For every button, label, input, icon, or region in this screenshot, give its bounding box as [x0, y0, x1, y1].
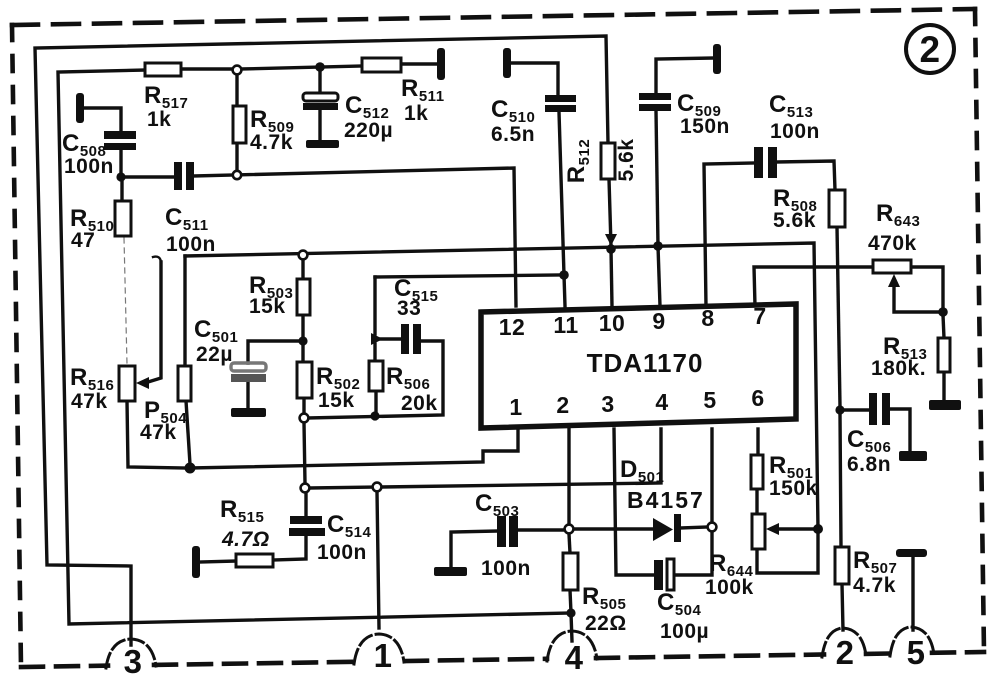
wire: pin 7 up and right to R643	[754, 267, 873, 306]
svg-text:6.5n: 6.5n	[491, 123, 535, 146]
wire: R506 top stub	[373, 344, 376, 361]
svg-text:D501: D501	[620, 456, 664, 486]
wire: pin 2 down to C503 node	[567, 429, 570, 525]
svg-text:150n: 150n	[680, 115, 730, 138]
pin 7	[753, 303, 766, 329]
wire: faint link R510 bottom to R516 top	[124, 238, 127, 364]
potentiometer R504	[140, 366, 191, 444]
svg-text:5.6k: 5.6k	[773, 209, 816, 232]
wire: C506 left lead	[844, 408, 869, 411]
resistor R510	[70, 201, 131, 252]
wire: R643 wiper down and right to node	[894, 286, 940, 312]
wire: C503 node to R505	[569, 534, 570, 553]
wire: lower node line to pin 4	[310, 429, 661, 488]
pin 6	[751, 385, 764, 411]
svg-text:C504: C504	[657, 589, 702, 619]
terminal bar (C509 top)	[713, 44, 721, 74]
wire: rail B C506 node to R507	[840, 414, 841, 547]
wire: R502 bottom stub	[302, 398, 305, 414]
wire: pin 8 up to C513	[704, 163, 754, 306]
wire: pin 11 entry	[564, 275, 565, 306]
wire: R510 top stub	[120, 181, 123, 201]
svg-text:4.7k: 4.7k	[250, 131, 293, 154]
resistor R513	[871, 333, 950, 380]
svg-text:R505: R505	[582, 583, 626, 613]
svg-text:20k: 20k	[401, 392, 438, 415]
capacitor C515	[394, 275, 438, 354]
ground (C512)	[306, 140, 339, 148]
svg-text:1k: 1k	[404, 102, 428, 125]
svg-text:5: 5	[907, 634, 926, 671]
wire: junction to C511 left plate	[121, 175, 174, 178]
svg-text:15k: 15k	[318, 389, 355, 412]
pin 10	[599, 310, 626, 336]
wire: R507 bottom to terminal 2	[842, 584, 843, 630]
svg-text:7: 7	[753, 303, 766, 329]
svg-text:15k: 15k	[249, 295, 286, 318]
svg-text:100n: 100n	[770, 120, 820, 143]
svg-text:4.7k: 4.7k	[853, 574, 896, 597]
resistor R506	[369, 361, 438, 415]
dashed frame right	[975, 9, 984, 652]
wire: C508 bottom to junction	[119, 150, 122, 177]
resistor R501	[751, 452, 818, 500]
wire: node A to C512 node to R511	[241, 66, 362, 69]
resistor R508	[773, 185, 845, 232]
wire: C513 right to R508 top	[777, 161, 835, 190]
svg-text:6: 6	[751, 385, 764, 411]
wire: pin 6 down to R501	[756, 429, 759, 455]
pin 11	[553, 312, 578, 338]
wire: R508 bottom down rail B	[837, 227, 840, 406]
resistor R507	[835, 547, 897, 597]
svg-text:1: 1	[374, 637, 393, 674]
wire: C512 bottom stem to ground	[318, 110, 321, 141]
wire: pin-1 line from junction to IC pin 1	[190, 429, 518, 468]
wire: diode line from node to anode	[574, 527, 653, 530]
wire: R511 right to terminal bar	[401, 62, 441, 65]
capacitor C506	[847, 393, 891, 476]
wire: R501 to R644	[755, 489, 758, 514]
svg-text:100k: 100k	[705, 576, 754, 599]
diode D501 B4157	[620, 456, 705, 542]
wire: R644 bottom loop to wiper node	[757, 529, 818, 573]
wire: R503 bottom to node	[301, 315, 304, 341]
svg-text:150k: 150k	[769, 477, 818, 500]
svg-text:47k: 47k	[71, 390, 108, 413]
pin 3	[601, 391, 614, 417]
pin 1	[509, 394, 522, 420]
ground (C506)	[899, 451, 927, 461]
wire: pin 5 node down to C504 right	[675, 532, 712, 575]
terminal bar (C510 top)	[503, 48, 511, 78]
wire: C501 top hook to node	[248, 341, 300, 363]
wire: C509 bottom stem to pin 9 node	[656, 111, 658, 246]
svg-text:C501: C501	[194, 316, 238, 346]
svg-text:R511: R511	[401, 75, 445, 105]
wire: C508 terminal bar to cap	[84, 108, 121, 131]
svg-text:100µ: 100µ	[660, 620, 709, 643]
wire: node down to R513	[943, 315, 944, 338]
svg-text:5.6k: 5.6k	[615, 139, 638, 182]
resistor R509	[233, 106, 294, 154]
svg-text:4: 4	[655, 389, 668, 415]
pin 5	[703, 387, 716, 413]
wire: C503 right lead	[519, 528, 564, 531]
wire: lower node down to C514	[304, 492, 307, 516]
wire: R505 bottom to bottom rail	[570, 590, 571, 613]
wire: pin 10 entry	[611, 249, 612, 306]
wire: node line R502-R506 bottoms and C515 right branch	[308, 341, 443, 418]
wire: R506 bottom stub	[374, 391, 377, 412]
svg-text:1: 1	[509, 394, 522, 420]
wire: C510 terminal bar to cap top	[511, 63, 558, 95]
capacitor C512	[303, 92, 393, 142]
terminal 1	[354, 634, 404, 674]
svg-text:2: 2	[556, 392, 569, 418]
wire: horizontal bus line1 R504 to right corner	[185, 243, 818, 529]
wire: R502 node down to lower node	[304, 423, 305, 483]
terminal 3	[106, 639, 156, 680]
terminal bar (R515 left)	[192, 546, 200, 578]
wire: R515 left lead to terminal bar	[200, 561, 236, 562]
ground (R513)	[929, 400, 961, 410]
wire: C501 bottom stem	[246, 382, 249, 409]
svg-text:R515: R515	[220, 496, 264, 526]
pin 9	[652, 308, 665, 334]
wire: C510 bottom stem down to pin 11 node	[559, 112, 564, 275]
wire: pin 9 entry	[658, 246, 660, 306]
svg-text:3: 3	[124, 643, 143, 680]
capacitor C509	[639, 90, 730, 138]
wire: R504 top lead	[183, 256, 186, 366]
wire: R517 right to node A	[181, 67, 233, 70]
svg-text:33: 33	[397, 297, 421, 320]
svg-text:6.8n: 6.8n	[847, 453, 891, 476]
svg-text:C512: C512	[345, 92, 389, 122]
terminal bar (R511 right)	[437, 48, 445, 80]
wire: R516 wiper arm	[148, 257, 161, 382]
svg-text:11: 11	[553, 312, 578, 338]
wire: R516 bottom lead to junction	[127, 401, 186, 468]
svg-text:R506: R506	[386, 363, 430, 393]
dashed frame bottom segments	[21, 652, 984, 667]
svg-text:2: 2	[919, 29, 940, 70]
svg-text:22Ω: 22Ω	[585, 612, 627, 635]
resistor R502	[297, 362, 360, 412]
svg-text:C513: C513	[769, 91, 813, 121]
wire: bottom rail stub to terminal 4	[571, 613, 572, 641]
node: open circle junctions	[233, 66, 717, 534]
resistor R515	[220, 496, 273, 567]
wire: long line from C511 to pin 12 corner	[194, 168, 516, 306]
wire: R506/C515 top node down from line2	[373, 277, 376, 334]
svg-text:R507: R507	[853, 547, 897, 577]
svg-text:C503: C503	[475, 490, 519, 520]
svg-text:100n: 100n	[166, 233, 216, 256]
resistor R517	[144, 63, 188, 131]
svg-text:180k.: 180k.	[871, 357, 926, 380]
svg-text:47: 47	[71, 229, 95, 252]
wire: line2 C515 node to pin 11	[375, 275, 560, 277]
svg-text:100n: 100n	[64, 155, 114, 178]
capacitor C508	[62, 130, 136, 178]
resistor R512	[563, 139, 638, 184]
svg-text:TDA1170: TDA1170	[587, 348, 704, 378]
wire: C515 left lead	[381, 337, 401, 340]
pin 2	[556, 392, 569, 418]
svg-text:100n: 100n	[317, 541, 367, 564]
potentiometer R644	[705, 514, 779, 599]
svg-text:C506: C506	[847, 426, 891, 456]
svg-text:3: 3	[601, 391, 614, 417]
capacitor C511	[165, 162, 216, 256]
wire: R512 bottom lead to pin 10 node	[609, 179, 611, 246]
wire: outer supply loop left side (terminal 3 up to top)	[35, 36, 608, 645]
ground (C501)	[231, 408, 266, 417]
wire: inner loop from R517 left down to bottom rail	[58, 70, 571, 624]
wire: C503 left lead to ground	[451, 531, 497, 567]
svg-text:R643: R643	[876, 200, 920, 230]
svg-text:C510: C510	[491, 96, 535, 126]
wire: R503 top stub	[301, 258, 304, 279]
svg-text:8: 8	[701, 305, 714, 331]
svg-text:B4157: B4157	[627, 487, 705, 513]
capacitor C501	[194, 316, 266, 382]
wire: diode cathode to pin 5 node	[681, 527, 707, 528]
wire: R502 top stub	[301, 345, 304, 362]
svg-text:C511: C511	[165, 204, 209, 234]
pin 8	[701, 305, 714, 331]
svg-text:R512: R512	[563, 139, 593, 183]
svg-text:5: 5	[703, 387, 716, 413]
wire: terminal 1 drop	[377, 492, 379, 628]
resistor R503	[249, 272, 310, 318]
terminal bar (C508 top)	[76, 93, 84, 123]
wire: R509 bottom stub	[235, 143, 238, 172]
arrow (R512 lead)	[605, 234, 617, 246]
wire: C506 right lead to ground	[890, 409, 910, 451]
potentiometer R516	[70, 364, 149, 413]
capacitor C513	[754, 91, 820, 178]
svg-text:C514: C514	[327, 511, 372, 541]
svg-text:470k: 470k	[868, 232, 917, 255]
svg-text:1k: 1k	[147, 108, 171, 131]
wire: R509 top stub	[235, 72, 238, 106]
svg-text:47k: 47k	[140, 421, 177, 444]
svg-text:4: 4	[565, 639, 584, 676]
capacitor C510	[491, 95, 576, 146]
terminal 2	[822, 628, 866, 671]
wire: terminal 5 stub	[911, 557, 914, 630]
IC U1 TDA1170	[481, 304, 796, 428]
wire: R644 wiper to node	[778, 527, 815, 530]
resistor R511	[362, 58, 445, 125]
wire: R513 bottom to ground	[942, 372, 945, 400]
wire: R643 right lead down	[911, 267, 943, 309]
dashed frame top	[12, 9, 975, 25]
pin 12	[499, 314, 526, 340]
terminal bar (terminal 5 stub)	[896, 549, 927, 557]
capacitor C514	[289, 511, 372, 564]
svg-text:100n: 100n	[481, 557, 531, 580]
dashed frame left	[12, 25, 21, 667]
resistor R505	[563, 553, 627, 635]
svg-text:12: 12	[499, 314, 526, 340]
wire: R504 bottom lead to junction	[186, 401, 190, 464]
wire: C514 bottom to R515	[273, 537, 306, 560]
wire: pin 3 down to C504 left	[614, 429, 654, 575]
svg-text:220µ: 220µ	[344, 119, 393, 142]
svg-text:9: 9	[652, 308, 665, 334]
wire: C512 top stem	[318, 67, 321, 93]
svg-text:22µ: 22µ	[196, 343, 233, 366]
svg-text:4.7Ω: 4.7Ω	[221, 528, 270, 551]
terminal 4	[547, 631, 597, 676]
capacitor C504	[654, 559, 709, 643]
wire: pin 4 vertical covered above; pin 5 down to node	[710, 429, 713, 522]
wire: C509 terminal bar to cap top	[656, 58, 713, 93]
potentiometer R643	[868, 200, 920, 287]
terminal 5	[890, 627, 934, 671]
node: junction dots	[116, 62, 947, 617]
svg-text:2: 2	[836, 634, 855, 671]
circled sheet number 2	[906, 25, 954, 73]
pin 4	[655, 389, 668, 415]
arrow (C515 node)	[371, 333, 383, 345]
svg-text:10: 10	[599, 310, 626, 336]
ground (C503)	[434, 567, 467, 576]
capacitor C503	[475, 490, 531, 580]
